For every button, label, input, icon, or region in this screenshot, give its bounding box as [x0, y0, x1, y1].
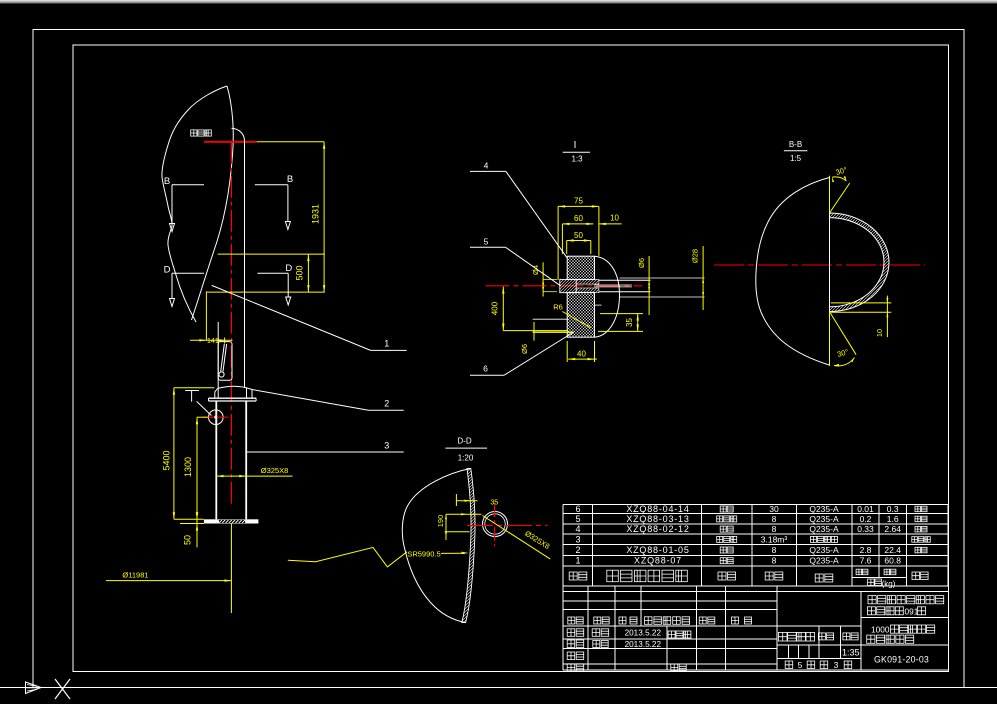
svg-text:1: 1: [575, 556, 580, 566]
detail I rounded shell bulge outline: [595, 256, 620, 337]
svg-text:2013.5.22: 2013.5.22: [625, 629, 662, 638]
detail I dim 75: [558, 197, 599, 280]
svg-text:7.6: 7.6: [860, 556, 872, 566]
svg-text:5: 5: [575, 514, 580, 524]
section B-B title: [784, 140, 808, 163]
section D-D title: [445, 437, 487, 463]
svg-text:5: 5: [484, 237, 489, 247]
svg-text:1:20: 1:20: [458, 454, 474, 463]
title block sheets row: gong 5 zhang di 3 zhang: [785, 660, 852, 670]
title block row zhi tu (draw): [567, 640, 661, 649]
detail I leader 4: [470, 161, 567, 259]
svg-text:XZQ88-07: XZQ88-07: [634, 556, 682, 566]
svg-text:6: 6: [483, 364, 488, 374]
detail I label R6 with leader: [553, 303, 591, 329]
svg-text:5: 5: [798, 660, 803, 670]
section B-B dim 10: [831, 296, 892, 338]
svg-text:XZQ88-02-12: XZQ88-02-12: [626, 524, 689, 534]
section D-D column tube circles: [483, 512, 508, 537]
svg-text:1:5: 1:5: [790, 154, 802, 163]
svg-text:0.33: 0.33: [857, 524, 874, 534]
section D-D shell sliver with hatch: [462, 468, 475, 622]
svg-text:Q235-A: Q235-A: [809, 504, 839, 514]
detail I upper body block with cross hatch: [567, 256, 594, 279]
title block right block dividers: [861, 617, 948, 645]
leader 3: [246, 441, 404, 453]
detail I dim phi6 right: [637, 256, 650, 315]
dim 141 horizontal: [190, 291, 233, 345]
svg-text:75: 75: [574, 197, 583, 206]
UCS icon arrow and X axis marker bottom-left: [26, 679, 71, 699]
dim 50: [174, 512, 204, 547]
BOM table row texts: [575, 504, 930, 566]
svg-text:0.2: 0.2: [860, 514, 872, 524]
svg-text:1: 1: [384, 339, 389, 349]
svg-text:B: B: [164, 176, 170, 187]
detail I title: [563, 140, 590, 164]
svg-text:60: 60: [574, 214, 583, 223]
svg-text:GK091-20-03: GK091-20-03: [874, 655, 929, 665]
main view: equator line label (Chinese): [191, 130, 212, 136]
svg-text:6: 6: [575, 504, 580, 514]
title block right: school name: [867, 596, 943, 617]
svg-text:190: 190: [436, 515, 445, 528]
dim 5400 vertical: [162, 388, 215, 520]
section marker D left: [164, 265, 204, 307]
section D-D red crosshair: [467, 503, 548, 547]
dim 500 vertical: [207, 254, 325, 292]
main view: anchor leader line: [197, 401, 212, 415]
svg-text:40: 40: [577, 349, 586, 358]
svg-text:35: 35: [490, 499, 498, 506]
section D-D label SR5990.5 with break leader: [288, 547, 469, 567]
svg-text:3: 3: [834, 660, 839, 670]
detail I lower body block with cross hatch: [567, 292, 594, 337]
svg-text:XZQ88-03-13: XZQ88-03-13: [626, 514, 689, 524]
title block row gong yi (process) + pi zhun (approve): [567, 664, 686, 672]
title block lower-left grid: [563, 586, 948, 670]
svg-text:1.6: 1.6: [887, 514, 899, 524]
svg-text:8: 8: [772, 524, 777, 534]
leader 2: [252, 390, 404, 411]
detail I dim 35: [598, 314, 643, 332]
dim 1931 vertical: [257, 142, 326, 292]
section D-D label phi325X8 leader: [483, 516, 552, 560]
svg-text:60.8: 60.8: [884, 556, 901, 566]
BOM header texts: [569, 569, 928, 588]
svg-text:1931: 1931: [311, 204, 321, 224]
BOM table grid: [563, 504, 948, 586]
detail I lower ext line: [533, 318, 569, 320]
dim 1300 vertical: [183, 417, 208, 519]
main view: column tube upper section: [218, 128, 244, 388]
main view: column cap transition above flange: [215, 386, 252, 398]
detail I red center line: [486, 285, 643, 287]
section B-B sphere blob outline: [756, 178, 830, 366]
title block row she ji (design): [567, 629, 691, 638]
title block middle texts: [778, 632, 859, 657]
detail I dim phi6 lower left: [520, 322, 574, 354]
svg-text:35: 35: [625, 318, 634, 327]
svg-text:1:35: 1:35: [842, 648, 860, 658]
svg-text:4: 4: [575, 524, 580, 534]
svg-text:400: 400: [491, 301, 500, 315]
svg-text:B-B: B-B: [789, 140, 802, 149]
svg-text:Ø6: Ø6: [520, 344, 529, 354]
main view: weld symbol at flange: [185, 391, 199, 402]
svg-text:3: 3: [575, 534, 580, 544]
detail I pin item5 with hatch: [560, 279, 576, 292]
svg-text:1300: 1300: [183, 457, 193, 477]
svg-text:4: 4: [484, 161, 489, 171]
detail I dim 40: [567, 341, 597, 362]
svg-text:R6: R6: [553, 303, 563, 312]
svg-text:5400: 5400: [162, 450, 172, 470]
section marker B left: [164, 176, 204, 232]
svg-text:30: 30: [769, 504, 779, 514]
svg-text:10: 10: [610, 213, 619, 222]
svg-text:Ø28: Ø28: [691, 249, 700, 263]
svg-text:D-D: D-D: [457, 437, 471, 446]
inner drawing frame: [73, 45, 949, 671]
detail I leader 5: [470, 237, 560, 286]
main view: column red center line: [230, 142, 232, 507]
section marker B right: [255, 174, 293, 230]
section B-B chord vertical line: [829, 178, 831, 366]
section D-D sphere blob outline: [402, 468, 471, 622]
main view: column tube lower section walls: [216, 401, 246, 519]
detail I dim 400: [491, 287, 569, 331]
dim phi11981: [106, 524, 231, 614]
section B-B hemispherical shell with hatch: [830, 213, 890, 312]
svg-text:8: 8: [772, 545, 777, 555]
svg-text:3.18m³: 3.18m³: [761, 534, 788, 544]
leader 1: [212, 285, 407, 350]
svg-text:B: B: [287, 174, 293, 185]
svg-text:Q235-A: Q235-A: [809, 514, 839, 524]
svg-text:2013.5.22: 2013.5.22: [625, 640, 662, 649]
detail I dim phi28: [691, 246, 705, 310]
svg-text:Ø6: Ø6: [637, 258, 646, 268]
main view: flange plate: [209, 398, 257, 401]
svg-text:Q235-A: Q235-A: [809, 556, 839, 566]
dim phi325X8 on main view: [217, 466, 293, 477]
svg-text:8: 8: [772, 514, 777, 524]
section B-B red center line: [714, 264, 925, 266]
svg-text:D: D: [164, 265, 171, 276]
svg-text:Q235-A: Q235-A: [809, 545, 839, 555]
svg-text:XZQ88-04-14: XZQ88-04-14: [626, 504, 689, 514]
svg-text:0.01: 0.01: [857, 504, 874, 514]
title block right: drawing title 1000m3 tank support: [867, 624, 935, 643]
detail I rod lines: [576, 278, 704, 305]
section D-D dim 190: [436, 513, 481, 540]
title block revision header row texts: [568, 617, 752, 625]
detail I dim 50: [567, 231, 591, 254]
svg-text:3: 3: [384, 441, 389, 451]
svg-text:0.3: 0.3: [887, 504, 899, 514]
svg-text:(kg): (kg): [882, 579, 896, 588]
svg-text:2.64: 2.64: [884, 524, 901, 534]
svg-text:091: 091: [905, 606, 919, 616]
title block middle: stage mark / weight / scale: [777, 592, 861, 670]
section D-D dim 35: [456, 494, 498, 506]
svg-text:500: 500: [294, 265, 304, 280]
main view: sphere shell outline (break line blob): [162, 86, 227, 322]
svg-text:1:3: 1:3: [571, 155, 583, 164]
svg-text:SR5990.5: SR5990.5: [407, 550, 440, 559]
svg-text:50: 50: [182, 535, 192, 545]
svg-text:I: I: [574, 140, 577, 151]
main view: tie plate bracket item4: [218, 342, 232, 381]
svg-text:2: 2: [384, 399, 389, 409]
svg-text:1000: 1000: [871, 624, 890, 634]
main view: base plate with section hatch: [204, 519, 259, 523]
detail I dim phi4: [531, 262, 557, 296]
svg-text:50: 50: [574, 231, 583, 240]
svg-text:D: D: [285, 263, 292, 274]
svg-text:8: 8: [772, 556, 777, 566]
detail I leader 6: [470, 332, 574, 375]
svg-text:2: 2: [575, 545, 580, 555]
main view: equator red center line: [204, 141, 257, 143]
title block row shen he (check): [567, 652, 584, 660]
svg-text:10: 10: [875, 329, 884, 337]
section marker D right: [257, 263, 292, 305]
detail I dim 60 and 10: [562, 213, 621, 254]
main view: anchor bolt circle: [202, 410, 228, 425]
section B-B 30 deg top: [830, 165, 850, 213]
main view: sphere outer surface arc: [192, 86, 234, 320]
svg-text:Ø11981: Ø11981: [122, 571, 148, 580]
svg-text:Q235-A: Q235-A: [809, 524, 839, 534]
svg-text:141: 141: [207, 338, 219, 345]
svg-text:2.8: 2.8: [860, 545, 872, 555]
section B-B 30 deg bottom: [830, 312, 857, 367]
svg-text:Ø325X8: Ø325X8: [261, 466, 289, 475]
top window edge bar: [0, 0, 997, 4]
svg-text:22.4: 22.4: [884, 545, 901, 555]
svg-text:XZQ88-01-05: XZQ88-01-05: [626, 545, 689, 555]
